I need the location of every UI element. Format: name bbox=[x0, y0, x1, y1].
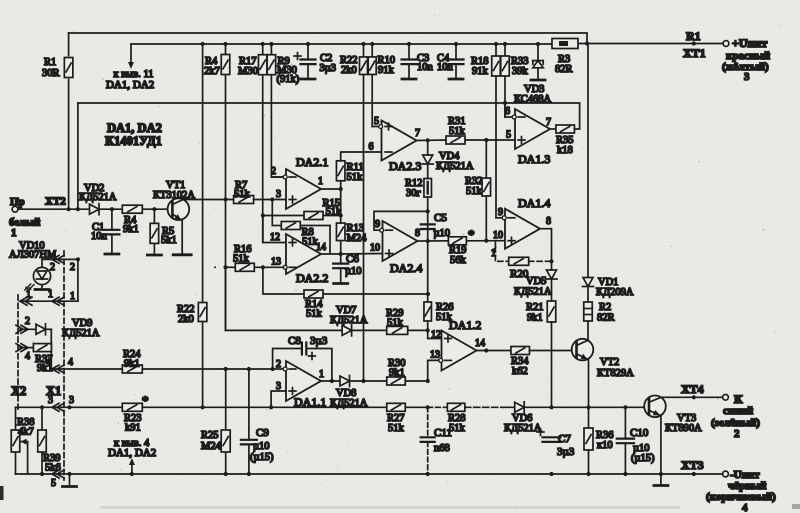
node pin10 R32 bbox=[484, 239, 488, 243]
wire 330 line bbox=[226, 267, 428, 330]
label коричневый bbox=[706, 491, 776, 503]
capacitor C6 bbox=[333, 264, 348, 269]
node R31 right bbox=[484, 138, 488, 142]
label VD6 КД521А bbox=[504, 413, 542, 434]
resistor R36 bbox=[584, 428, 593, 450]
wire out1 DA2.1 bbox=[321, 188, 341, 190]
svg-text:2: 2 bbox=[271, 166, 276, 177]
wire DA1.3 out bbox=[550, 128, 556, 130]
label R8 51k bbox=[302, 227, 319, 248]
label plus DA1.1 bbox=[289, 388, 296, 395]
node C1 bbox=[110, 207, 114, 211]
label 1 x1 bbox=[48, 289, 53, 300]
svg-text:КТ3102А: КТ3102А bbox=[153, 190, 195, 201]
label plus DA2.4 bbox=[386, 250, 393, 257]
wire out7 DA2.3 bbox=[417, 139, 428, 141]
wire R14 riser bbox=[263, 267, 304, 294]
contact arrow pin4 X2 bbox=[16, 344, 28, 352]
contact arrow pin3 X1 bbox=[52, 403, 64, 411]
svg-text:2k0: 2k0 bbox=[178, 314, 194, 325]
svg-text:3µ3: 3µ3 bbox=[320, 63, 337, 74]
label R28 51k bbox=[448, 413, 466, 434]
wire R22low vertical bbox=[202, 44, 204, 407]
ground VT3 bbox=[654, 484, 668, 487]
svg-text:n68: n68 bbox=[434, 443, 450, 454]
label pin9 DA2.4 bbox=[375, 219, 380, 230]
node out7 bbox=[426, 138, 430, 142]
node R39 bottom bbox=[40, 472, 44, 476]
resistor R25 bbox=[221, 430, 230, 452]
label X1 bbox=[46, 384, 61, 398]
svg-text:3: 3 bbox=[744, 71, 750, 83]
resistor R33 bbox=[501, 56, 510, 76]
wire R18 vertical bbox=[496, 44, 503, 218]
wire +V bus bbox=[131, 43, 552, 45]
label R22 2k0 lower bbox=[177, 304, 195, 325]
pin circle DA1.4 bbox=[502, 216, 506, 220]
label C10 µ15 bbox=[631, 453, 655, 464]
wire out14 bbox=[321, 253, 341, 255]
resistor R2 bbox=[584, 302, 593, 321]
svg-text:(µ15): (µ15) bbox=[250, 452, 274, 463]
label 5 x1 bbox=[51, 478, 56, 489]
label pin6 DA2.3 bbox=[369, 142, 374, 153]
svg-text:10n: 10n bbox=[417, 62, 434, 73]
wire out DA1.1 line bbox=[321, 380, 428, 382]
svg-text:30R: 30R bbox=[42, 68, 60, 79]
label plus DA1.2 bbox=[445, 335, 452, 342]
label 2 xt4 bbox=[734, 428, 740, 440]
label R22 2k0 top bbox=[340, 55, 358, 76]
node VT3 emitter gnd bbox=[659, 472, 663, 476]
wire R15 line bbox=[263, 215, 341, 217]
op-amp DA1.3 bbox=[515, 109, 550, 149]
wire R32 top bbox=[485, 140, 487, 178]
wire R17 vertical bbox=[262, 44, 264, 243]
svg-text:5k6: 5k6 bbox=[45, 463, 61, 474]
svg-text:5k1: 5k1 bbox=[161, 235, 177, 246]
svg-text:8: 8 bbox=[546, 216, 551, 227]
resistor R18 bbox=[492, 56, 501, 76]
wire R21 down bbox=[551, 322, 553, 407]
label R5 5k1 bbox=[161, 226, 177, 246]
wire R14 line right bbox=[323, 293, 428, 295]
wire R8 line bbox=[300, 226, 330, 254]
label 4 x2 bbox=[25, 351, 30, 362]
capacitor C4 bbox=[449, 60, 464, 65]
resistor R26 bbox=[424, 302, 432, 321]
wire VT2 emitter bbox=[577, 354, 589, 408]
svg-text:М24: М24 bbox=[201, 441, 222, 452]
node VT2 emitter bbox=[586, 405, 590, 409]
label R9 M30 (91k) bbox=[277, 56, 300, 85]
wire VD5 to R21 bbox=[551, 280, 553, 302]
op-amp DA1.4 bbox=[505, 209, 540, 249]
wire R24 line bbox=[51, 368, 272, 370]
node C10 bottom bbox=[623, 472, 627, 476]
scan artifact left edge bbox=[0, 486, 4, 500]
label красный bbox=[726, 50, 771, 62]
wire pin3 DA1.1 bbox=[271, 391, 286, 407]
svg-text:R1: R1 bbox=[686, 29, 701, 43]
label 3 x1l bbox=[48, 395, 53, 406]
svg-text:12: 12 bbox=[431, 330, 441, 341]
op-amp DA1.2 bbox=[442, 331, 477, 371]
label pin5 DA2.3 bbox=[374, 116, 379, 127]
label plus DA2.1 bbox=[289, 196, 296, 203]
svg-text:14: 14 bbox=[475, 338, 485, 349]
label VD4 КД521А bbox=[436, 151, 474, 172]
svg-text:3: 3 bbox=[48, 395, 53, 406]
wire XT2 line bbox=[18, 208, 173, 210]
svg-text:51k: 51k bbox=[347, 172, 364, 183]
svg-text:КД521А: КД521А bbox=[79, 192, 117, 203]
label minus DA2.4 bbox=[386, 229, 393, 231]
wire pin13 drop bbox=[428, 360, 439, 381]
label C6 µ10 bbox=[345, 253, 362, 277]
label R38 4k7 bbox=[17, 417, 35, 438]
node R16 right bbox=[261, 265, 265, 269]
svg-text:9k1: 9k1 bbox=[527, 313, 543, 324]
node R14 right bbox=[426, 292, 430, 296]
node bus R10 bbox=[370, 42, 374, 46]
svg-text:7: 7 bbox=[415, 128, 420, 139]
label R27 51k bbox=[387, 413, 405, 434]
svg-text:КД521А: КД521А bbox=[514, 287, 552, 298]
pin circle DA1.2 bbox=[439, 358, 443, 362]
resistor R12 bbox=[424, 179, 432, 198]
svg-text:8: 8 bbox=[415, 228, 420, 239]
svg-text:1: 1 bbox=[11, 227, 17, 239]
label plus DA1.3 bbox=[518, 137, 525, 144]
svg-text:к10: к10 bbox=[597, 440, 613, 451]
label XT4 bbox=[681, 382, 704, 396]
svg-text:КД521А: КД521А bbox=[330, 315, 368, 326]
svg-text:КД209А: КД209А bbox=[596, 287, 634, 298]
label R12 30r bbox=[405, 178, 423, 199]
node pin2 corner bbox=[271, 367, 275, 371]
label DA1.1 bbox=[294, 395, 326, 409]
wire C1 stub bbox=[111, 209, 113, 252]
node R36 bottom bbox=[586, 472, 590, 476]
wire out DA1.2 bbox=[477, 350, 512, 352]
wire VT2 collector bbox=[577, 340, 589, 346]
wire R9 vertical bbox=[271, 44, 283, 177]
svg-text:7: 7 bbox=[546, 117, 551, 128]
label C2 3µ3 bbox=[320, 53, 337, 74]
ground R5 bbox=[147, 254, 161, 257]
resistor R15 bbox=[304, 212, 323, 220]
svg-text:КД521А: КД521А bbox=[330, 398, 368, 409]
label DA1, DA2 К1401УД1 bbox=[105, 121, 162, 148]
node C10 top bbox=[623, 405, 627, 409]
wire R36 leads bbox=[588, 407, 590, 474]
label чёрный bbox=[728, 480, 767, 492]
resistor R37 bbox=[33, 344, 51, 352]
capacitor C10 bbox=[617, 439, 634, 444]
node R5 bbox=[152, 207, 156, 211]
wire pin1 line bbox=[20, 259, 78, 301]
svg-text:51k: 51k bbox=[388, 423, 405, 434]
svg-text:12: 12 bbox=[270, 232, 280, 243]
label C7 + bbox=[537, 429, 544, 436]
svg-text:9: 9 bbox=[375, 219, 380, 230]
svg-text:1: 1 bbox=[26, 289, 31, 300]
svg-text:КТ829А: КТ829А bbox=[597, 368, 634, 379]
label VD8 КД521А bbox=[330, 388, 368, 409]
svg-text:КТ890А: КТ890А bbox=[665, 423, 702, 434]
label жёлтый bbox=[722, 61, 769, 73]
label pin3 bbox=[276, 189, 281, 200]
svg-text:1: 1 bbox=[70, 291, 75, 302]
resistor R1 bbox=[64, 58, 73, 78]
wire R4b vertical bbox=[225, 44, 227, 330]
wire R20 dash left bbox=[495, 247, 508, 261]
wire C9 branch bbox=[248, 369, 250, 474]
capacitor C7 bbox=[543, 437, 561, 442]
label 3 bbox=[744, 71, 750, 83]
dashed X2 bbox=[17, 295, 19, 412]
terminal XT3 bbox=[723, 471, 729, 477]
node R20 right bbox=[549, 259, 553, 263]
capacitor C11 bbox=[421, 437, 435, 442]
resistor R20 bbox=[509, 257, 529, 265]
label minus DA1.4 bbox=[508, 217, 515, 219]
terminal XT4 bbox=[723, 394, 729, 400]
diode VD9 bbox=[36, 324, 46, 335]
ground C6 bbox=[334, 282, 348, 285]
svg-text:4: 4 bbox=[68, 357, 73, 368]
node bus R9 bbox=[269, 42, 273, 46]
terminal XT2 bbox=[12, 206, 18, 212]
label к выв. 11 bbox=[106, 69, 154, 91]
wire DA1.4 out bbox=[540, 229, 552, 270]
svg-text:C6: C6 bbox=[346, 253, 359, 265]
label C1 10n bbox=[91, 222, 108, 242]
terminal XT1 bbox=[723, 41, 729, 47]
svg-text:9k1: 9k1 bbox=[123, 224, 139, 235]
contact arrow pin4 X1 bbox=[52, 365, 64, 373]
label minus DA2.2 bbox=[289, 266, 296, 268]
wire pin12 riser bbox=[263, 216, 286, 243]
node bus R22low bbox=[201, 42, 205, 46]
node R22top bottom bbox=[361, 379, 365, 383]
label pin10 DA2.4 bbox=[370, 243, 380, 254]
svg-text:µ10: µ10 bbox=[345, 266, 362, 277]
scan smudge bottom bbox=[100, 506, 680, 509]
svg-text:k91: k91 bbox=[125, 423, 141, 434]
node bus R22top bbox=[361, 42, 365, 46]
wire DA1.3 pin5 line bbox=[428, 139, 515, 141]
diode VD2 bbox=[90, 204, 100, 215]
svg-text:6: 6 bbox=[369, 142, 374, 153]
label R18 91k bbox=[471, 56, 489, 77]
wire R22top vertical bbox=[363, 44, 365, 381]
node C7 top bbox=[549, 405, 553, 409]
label R26 51k bbox=[436, 302, 454, 323]
svg-text:*: * bbox=[142, 393, 149, 408]
capacitor C2 bbox=[301, 60, 316, 65]
wire LED gnd stub bbox=[41, 285, 43, 288]
svg-text:C9: C9 bbox=[256, 427, 269, 439]
wire VT1 emitter bbox=[172, 214, 182, 253]
label minus DA2.1 bbox=[289, 176, 296, 178]
label зелёный bbox=[711, 417, 760, 429]
label 1 input bbox=[11, 227, 17, 239]
label R29 51k bbox=[386, 308, 404, 329]
wire DA1.3 pin6 bbox=[505, 103, 513, 117]
wire out8 DA2.4 bbox=[418, 240, 428, 242]
wire right rail bbox=[587, 44, 589, 340]
label R14 51k bbox=[305, 299, 323, 320]
label 4 x1l bbox=[46, 357, 51, 368]
capacitor C9 bbox=[241, 440, 257, 445]
svg-text:C7: C7 bbox=[558, 433, 571, 445]
wire R16 line bbox=[226, 266, 284, 268]
pin circle DA1.3 bbox=[512, 115, 516, 119]
label minus DA1.3 bbox=[518, 116, 525, 118]
wire VD4 to R12 bbox=[427, 164, 429, 179]
wire gnd stub bbox=[69, 474, 71, 485]
node C5 top bbox=[426, 209, 430, 213]
label VD7 КД521А bbox=[330, 305, 368, 326]
svg-text:DA2.3: DA2.3 bbox=[389, 159, 421, 173]
resistor R19 bbox=[448, 237, 466, 245]
svg-text:4: 4 bbox=[25, 351, 30, 362]
svg-text:3: 3 bbox=[69, 395, 74, 406]
wire to pin 11 arrow bbox=[128, 44, 134, 69]
label pin5 DA1.3 bbox=[506, 130, 511, 141]
svg-text:5: 5 bbox=[506, 130, 511, 141]
node R15 left bbox=[261, 213, 265, 217]
svg-text:2: 2 bbox=[734, 428, 740, 440]
wire R11 top to pin6 DA2.3 bbox=[341, 152, 382, 161]
dashed X1 bbox=[63, 251, 65, 480]
wire +V bus to XT1 bbox=[578, 43, 723, 45]
wire pin12 jog bbox=[428, 330, 442, 338]
label VD9 bbox=[72, 318, 92, 329]
wire R39 branch bbox=[41, 407, 43, 474]
svg-text:Пр: Пр bbox=[10, 196, 25, 208]
svg-text:C8: C8 bbox=[288, 335, 301, 347]
label DA1.4 bbox=[518, 196, 550, 210]
node gnd symbol bbox=[67, 472, 71, 476]
label pin10 DA1.4 bbox=[493, 230, 503, 241]
pin circle DA2.1 inv bbox=[283, 175, 287, 179]
resistor R21 bbox=[547, 301, 556, 322]
node bus C3 bbox=[407, 42, 411, 46]
label R1 XT1 bbox=[683, 29, 706, 60]
svg-text:XT3: XT3 bbox=[681, 458, 704, 472]
svg-text:DA1, DA2: DA1, DA2 bbox=[108, 447, 156, 459]
transistor VT1 КТ3102А bbox=[168, 198, 190, 220]
label X2 bbox=[11, 384, 26, 398]
label 1 x1r bbox=[70, 291, 75, 302]
wire C8 loop bbox=[273, 349, 332, 382]
svg-text:3µ3: 3µ3 bbox=[310, 335, 328, 347]
label pin7 DA1.3 bbox=[546, 117, 551, 128]
wire R34 to VT2 bbox=[529, 350, 576, 352]
node XT1 line bbox=[692, 41, 696, 45]
resistor R35 bbox=[556, 125, 575, 133]
diode VD4 bbox=[422, 140, 433, 164]
contact arrow pin1 X2 bbox=[20, 297, 32, 305]
svg-text:К: К bbox=[734, 392, 743, 406]
wire bias line left drop bbox=[77, 103, 79, 209]
label plus DA2.3 bbox=[385, 123, 392, 130]
svg-text:C10: C10 bbox=[630, 427, 649, 439]
wire C10 leads bbox=[624, 407, 626, 474]
label C3 10n bbox=[417, 53, 434, 73]
label 1 x2 bbox=[26, 289, 31, 300]
wire VT3 collector bbox=[649, 397, 723, 402]
svg-text:КД521А: КД521А bbox=[504, 423, 542, 434]
wire R37 line bbox=[20, 347, 51, 349]
label DA2.3 bbox=[389, 159, 421, 173]
wire R13 to C6 bbox=[340, 241, 342, 264]
label R15 51k bbox=[323, 198, 343, 218]
diode VD6 bbox=[515, 402, 525, 413]
node collector R4b bbox=[223, 197, 227, 201]
svg-text:XT4: XT4 bbox=[681, 382, 704, 396]
resistor R17 bbox=[258, 55, 267, 75]
svg-text:М30: М30 bbox=[238, 66, 258, 77]
wire R19 line bbox=[428, 240, 505, 242]
svg-text:9k1: 9k1 bbox=[124, 359, 140, 370]
wire pin2 entry bbox=[273, 368, 284, 370]
wire k vyv 4 arrow bbox=[129, 458, 135, 474]
contact arrow pin2 bbox=[52, 255, 64, 263]
label R34 k62 bbox=[511, 356, 529, 377]
label C9 µ15 bbox=[250, 452, 274, 463]
svg-text:синий: синий bbox=[723, 405, 754, 417]
label pin12 bbox=[270, 232, 280, 243]
label pin9 DA1.4 bbox=[498, 207, 503, 218]
label DA1 DA2 bottom bbox=[108, 447, 156, 459]
svg-text:DA1, DA2: DA1, DA2 bbox=[106, 79, 154, 91]
label R19 56k bbox=[449, 245, 467, 266]
wire R11 bottom bbox=[340, 181, 342, 223]
svg-text:*: * bbox=[468, 227, 475, 242]
label C5 bbox=[434, 212, 447, 224]
svg-text:2k0: 2k0 bbox=[341, 65, 357, 76]
svg-text:82R: 82R bbox=[555, 64, 573, 75]
wire pin3 drop to R8 bbox=[272, 200, 281, 226]
label R32 51k bbox=[465, 176, 483, 197]
svg-text:k62: k62 bbox=[512, 366, 528, 377]
svg-text:4: 4 bbox=[742, 502, 748, 513]
label plus DA1.4 bbox=[508, 237, 515, 244]
svg-text:10: 10 bbox=[370, 243, 380, 254]
label VD3 KC468A bbox=[514, 84, 551, 105]
resistor R9 bbox=[267, 55, 276, 75]
label R2 82R bbox=[597, 302, 615, 324]
resistor R28 bbox=[447, 403, 465, 411]
svg-text:39k: 39k bbox=[512, 66, 529, 77]
label -Upit bbox=[730, 469, 760, 481]
svg-text:4: 4 bbox=[46, 357, 51, 368]
label pin13 DA1.2 bbox=[430, 350, 440, 361]
node LED line bbox=[76, 257, 80, 261]
label +Upit bbox=[732, 36, 767, 50]
svg-text:1: 1 bbox=[48, 289, 53, 300]
label XT3 bbox=[681, 458, 704, 472]
label DA1.2 bbox=[449, 318, 481, 332]
resistor R4 (9k1) bbox=[122, 205, 142, 213]
label K bbox=[734, 392, 743, 406]
pin circle DA2.2 inv bbox=[283, 265, 287, 269]
ground C3 bbox=[402, 78, 416, 81]
